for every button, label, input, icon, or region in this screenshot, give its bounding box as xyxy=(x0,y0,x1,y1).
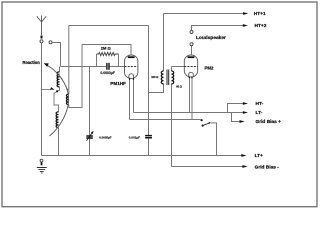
tap contact dot xyxy=(56,90,58,92)
V2 anode cap xyxy=(188,56,195,58)
V1 filament leg left xyxy=(129,79,131,120)
V2 filament leg left xyxy=(189,77,191,112)
svg-text:LT+: LT+ xyxy=(255,153,264,159)
wire node to primary bottom xyxy=(149,85,164,93)
wire HT+1 xyxy=(164,13,244,15)
wire tap to coil L2 xyxy=(54,92,59,112)
svg-text:HT+1: HT+1 xyxy=(254,11,266,17)
svg-text:PM2: PM2 xyxy=(205,66,214,71)
svg-text:100 Ω: 100 Ω xyxy=(151,75,158,79)
switch S2 contact left xyxy=(201,119,203,121)
svg-text:60 Ω: 60 Ω xyxy=(176,85,182,89)
V2 base pins xyxy=(189,76,193,78)
arrow HT+2 xyxy=(243,24,248,27)
svg-text:PM1HF: PM1HF xyxy=(110,81,126,86)
switch link dashed xyxy=(62,78,70,92)
switch S2 lever xyxy=(203,123,210,126)
wire HT+2 xyxy=(192,26,244,31)
wire tuning cap branch xyxy=(89,67,91,156)
wire HT- branch xyxy=(228,104,244,113)
wire anode node vertical xyxy=(148,26,150,136)
V1 filament xyxy=(129,74,134,79)
valve V1 PM1HF envelope xyxy=(125,55,138,78)
svg-text:0.001μF: 0.001μF xyxy=(129,135,140,139)
V2 top lead xyxy=(191,46,193,55)
arrow HT- xyxy=(243,102,248,105)
capacitor C2 grid condenser xyxy=(107,63,109,70)
arrow LT+ xyxy=(241,154,246,157)
svg-text:Grid Bias +: Grid Bias + xyxy=(256,119,282,125)
svg-text:HT+2: HT+2 xyxy=(255,23,267,29)
V1 grid line xyxy=(125,66,138,68)
switch S2 pivot xyxy=(202,125,204,127)
earth terminal circle xyxy=(40,159,43,162)
aerial terminal T1 xyxy=(40,40,43,43)
transformer T1 secondary xyxy=(171,67,173,167)
svg-text:0.0003μF: 0.0003μF xyxy=(100,71,115,75)
V1 anode cap xyxy=(128,56,135,58)
coil L3 reaction coil xyxy=(68,26,70,95)
V1 base pins xyxy=(129,78,134,80)
arrow Grid Bias + xyxy=(240,120,245,123)
switch arm S1 wiper xyxy=(42,89,52,91)
coil L2 tuning coil lower xyxy=(56,112,58,128)
transformer T1 primary xyxy=(163,14,165,93)
arrow HT+1 xyxy=(243,12,248,15)
loudspeaker terminal upper xyxy=(190,31,193,34)
svg-text:Reaction: Reaction xyxy=(23,60,41,65)
aerial terminal T2 xyxy=(49,41,52,44)
wire from T2 to grid node xyxy=(52,43,61,67)
wire top rail HT feed xyxy=(69,25,149,27)
bottom bus LT+ xyxy=(42,155,243,157)
svg-text:Loudspeaker: Loudspeaker xyxy=(196,35,226,41)
wire GB+ branch xyxy=(232,113,241,122)
V2 filament leg right xyxy=(191,77,193,119)
loudspeaker terminal lower xyxy=(190,43,193,46)
aerial plug xyxy=(41,36,43,39)
wire coil L1 bottom to tap xyxy=(57,87,59,91)
wire RC box right xyxy=(118,54,120,67)
antenna xyxy=(37,16,46,36)
resistor R1 grid leak 2M xyxy=(97,52,119,55)
rail filament plus xyxy=(130,119,201,121)
switch S2 output wire xyxy=(210,123,217,156)
svg-text:0.0005μF: 0.0005μF xyxy=(99,136,112,140)
capacitor C3 bypass xyxy=(145,136,152,138)
svg-text:HT-: HT- xyxy=(256,101,264,107)
V1 filament leg right xyxy=(133,79,135,113)
wire grid through box xyxy=(97,66,125,68)
svg-text:2M Ω: 2M Ω xyxy=(101,45,112,50)
svg-text:LT-: LT- xyxy=(256,110,263,116)
arrow Grid Bias - xyxy=(242,165,247,168)
valve V2 PM2 envelope xyxy=(184,55,197,77)
V2 grid line xyxy=(184,66,197,68)
arrow LT- xyxy=(243,111,248,114)
wire RC box left xyxy=(96,54,98,67)
wire earth line vertical xyxy=(41,43,43,156)
reaction arrow xyxy=(46,65,68,137)
wire secondary to V2 grid xyxy=(172,66,185,68)
wire anode top run xyxy=(82,45,131,55)
capacitor C1 variable tuning xyxy=(86,132,93,140)
rail LT minus xyxy=(134,112,244,114)
ground symbol xyxy=(37,168,47,174)
earth plug xyxy=(41,162,43,165)
coil L1 aerial tuning coil upper xyxy=(59,67,61,72)
V2 filament xyxy=(189,72,194,77)
wire grid lead horizontal xyxy=(61,66,97,68)
wire C3 to bus xyxy=(148,139,150,156)
wire coil L2 to bottom bus xyxy=(58,128,60,156)
svg-text:Grid Bias -: Grid Bias - xyxy=(255,165,280,171)
rail grid bias minus xyxy=(172,166,244,168)
transformer T1 core xyxy=(167,70,169,86)
